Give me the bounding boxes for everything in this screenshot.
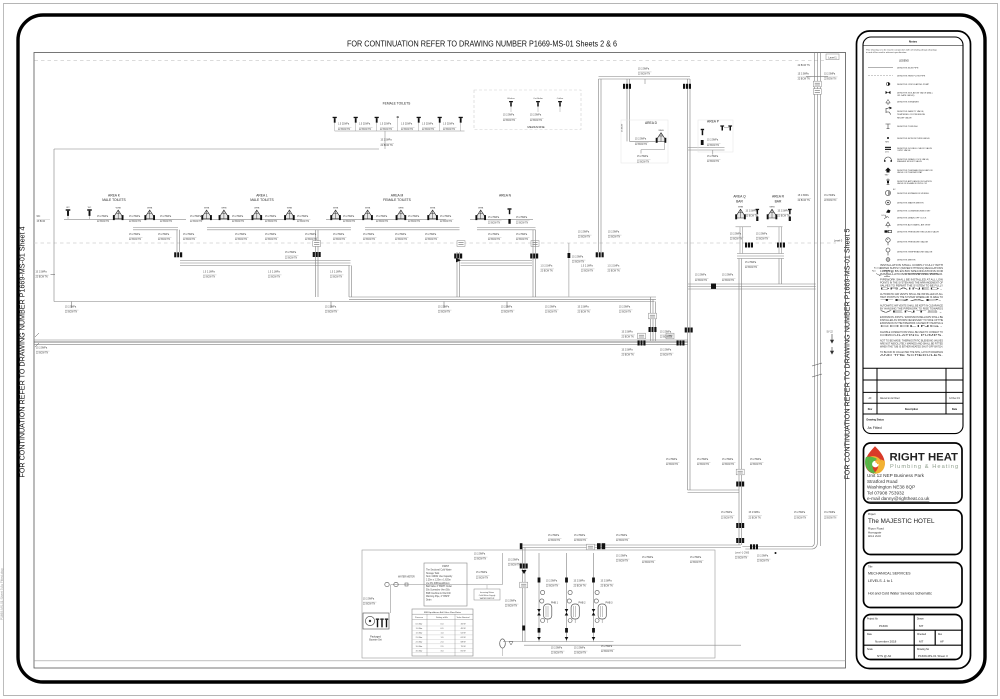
svg-text:DENOTES SAFETY VALVE,: DENOTES SAFETY VALVE,: [897, 110, 924, 113]
svg-text:22 BCW TN: 22 BCW TN: [343, 221, 356, 223]
svg-text:15 2.5MPa: 15 2.5MPa: [572, 257, 584, 259]
svg-text:15 2.5MPa: 15 2.5MPa: [474, 554, 486, 556]
bottom drain run: [503, 641, 614, 643]
svg-text:VALVE OR THERMOSTAT: VALVE OR THERMOSTAT: [897, 171, 923, 174]
svg-text:B38 Equilibrium Ball Valve Flo: B38 Equilibrium Ball Valve Flow Rates: [424, 611, 462, 614]
MEZZANINE dashed room: [474, 90, 581, 130]
svg-text:AREA D: AREA D: [645, 121, 658, 125]
svg-text:15 2.5MPa: 15 2.5MPa: [660, 331, 672, 333]
svg-text:VENTS.: VENTS.: [880, 311, 945, 314]
svg-text:22 BCW TN: 22 BCW TN: [443, 129, 456, 131]
packaged booster set tank: [363, 613, 389, 629]
area D feed pair: [626, 79, 628, 141]
svg-text:22 BCW TN: 22 BCW TN: [660, 337, 673, 339]
svg-text:15 2.5MPa: 15 2.5MPa: [746, 211, 758, 213]
svg-text:FOR CONTINUATION REFER TO DRAW: FOR CONTINUATION REFER TO DRAWING NUMBER…: [843, 229, 852, 480]
wire: cold feed loop left riser: [53, 149, 55, 302]
svg-text:15 2.5MPa: 15 2.5MPa: [660, 350, 672, 352]
crossing tick + labels top: [806, 75, 828, 77]
svg-text:PHB 3: PHB 3: [606, 601, 614, 604]
svg-text:22 BCW TN: 22 BCW TN: [635, 144, 648, 146]
svg-text:15 2.5MPa: 15 2.5MPa: [695, 275, 707, 277]
riser pair area N: [532, 230, 534, 297]
svg-text:MT: MT: [919, 624, 923, 628]
svg-text:VALVE IN FLAME NOZZLE OR: VALVE IN FLAME NOZZLE OR: [897, 182, 927, 185]
svg-text:22 BCW TN: 22 BCW TN: [129, 221, 142, 223]
svg-text:81 W: 81 W: [461, 650, 466, 652]
svg-text:22 BCW TN: 22 BCW TN: [265, 221, 278, 223]
svg-text:22 BCW TN: 22 BCW TN: [745, 267, 758, 269]
svg-text:22 BCW TN: 22 BCW TN: [363, 604, 376, 606]
svg-text:Level 0: Level 0: [834, 239, 843, 243]
svg-text:15 2.5MPa: 15 2.5MPa: [637, 156, 649, 158]
wire: pair A elbow to B: [688, 489, 740, 491]
svg-text:22 BCW TN: 22 BCW TN: [601, 651, 614, 653]
svg-text:22 BCW TN: 22 BCW TN: [401, 129, 414, 131]
vent arrows: [830, 334, 833, 343]
svg-text:22 BCW TN: 22 BCW TN: [530, 120, 543, 122]
svg-text:DENOTES BCW PIPE: DENOTES BCW PIPE: [897, 68, 919, 70]
svg-text:AREA R: AREA R: [772, 195, 785, 199]
wire: triple drop at x~650: [650, 297, 652, 341]
svg-text:DENOTES PRESSURE GAUGE: DENOTES PRESSURE GAUGE: [897, 241, 929, 244]
svg-text:15 2.5MPa: 15 2.5MPa: [722, 459, 734, 461]
svg-text:22 BCW TN: 22 BCW TN: [305, 239, 318, 241]
notes & legend box: [863, 37, 963, 434]
svg-text:22 BCW TN: 22 BCW TN: [359, 129, 372, 131]
svg-text:1.5 2.1MPa: 1.5 2.1MPa: [608, 265, 620, 267]
svg-text:22 BCW TN: 22 BCW TN: [338, 129, 351, 131]
svg-text:BAR: BAR: [736, 199, 743, 203]
svg-text:The MAJESTIC HOTEL: The MAJESTIC HOTEL: [868, 518, 935, 525]
svg-text:Project No: Project No: [867, 618, 878, 621]
svg-text:22 BCW TN: 22 BCW TN: [265, 239, 278, 241]
svg-text:22 BCW TN: 22 BCW TN: [158, 239, 171, 241]
svg-text:LEGEND: LEGEND: [899, 59, 909, 62]
svg-text:15 2.5MPa: 15 2.5MPa: [721, 512, 733, 514]
svg-text:P1669: P1669: [879, 624, 888, 628]
svg-text:3.5 Bar: 3.5 Bar: [416, 649, 423, 652]
svg-text:DENOTES AUTOMATIC AIR VENT: DENOTES AUTOMATIC AIR VENT: [897, 224, 931, 227]
svg-text:Drawing Status: Drawing Status: [867, 419, 885, 422]
svg-text:15 2.5MPa: 15 2.5MPa: [622, 350, 634, 352]
svg-text:AREA L: AREA L: [256, 193, 268, 197]
svg-text:15 2.5MPa: 15 2.5MPa: [707, 140, 719, 142]
svg-text:22 BCW TN: 22 BCW TN: [425, 239, 438, 241]
incoming main box: [474, 589, 500, 600]
svg-text:15 2.5MPa: 15 2.5MPa: [381, 140, 393, 142]
svg-text:22 BCW TN: 22 BCW TN: [778, 216, 791, 218]
svg-text:22 BCW TN: 22 BCW TN: [97, 221, 110, 223]
svg-text:The Sectional Cold Water: The Sectional Cold Water: [426, 568, 452, 571]
svg-text:15 2.5MPa: 15 2.5MPa: [325, 307, 337, 309]
area labels: [102, 193, 126, 202]
svg-text:22 BCW TN: 22 BCW TN: [798, 79, 811, 81]
bar riser pair down: [738, 259, 740, 285]
wire: riser pair B down to plant: [738, 284, 740, 545]
svg-text:22 BCW TN: 22 BCW TN: [690, 562, 703, 564]
svg-text:32 W: 32 W: [461, 624, 466, 626]
labels bottom of plant: [551, 648, 565, 655]
svg-text:75 W: 75 W: [461, 646, 466, 648]
svg-text:15 2.5MPa: 15 2.5MPa: [363, 599, 375, 601]
svg-text:Unit 12 NEP Business Park: Unit 12 NEP Business Park: [867, 473, 925, 478]
svg-text:22 BCW TN: 22 BCW TN: [268, 277, 281, 279]
svg-text:15 2.5MPa: 15 2.5MPa: [129, 216, 141, 218]
svg-text:3.0 Bar: 3.0 Bar: [416, 645, 423, 648]
svg-text:15 2.5MPa: 15 2.5MPa: [425, 234, 437, 236]
svg-text:Notes: Notes: [909, 40, 918, 44]
svg-text:22 BCW TN: 22 BCW TN: [608, 237, 621, 239]
svg-text:HG1 2HU: HG1 2HU: [868, 534, 881, 538]
svg-text:22 BCW TN: 22 BCW TN: [160, 221, 173, 223]
expansion vessel: [500, 639, 506, 648]
svg-text:22 BCW TN: 22 BCW TN: [637, 161, 650, 163]
svg-text:12 Dec 19: 12 Dec 19: [949, 398, 960, 400]
svg-text:22 BCW TN: 22 BCW TN: [505, 606, 518, 608]
svg-text:22 BCW TN: 22 BCW TN: [508, 565, 521, 567]
svg-text:15 2.5MPa: 15 2.5MPa: [505, 601, 517, 603]
svg-text:22 BCW TN: 22 BCW TN: [546, 586, 559, 588]
svg-text:15 2.5MPa: 15 2.5MPa: [333, 234, 345, 236]
svg-text:22 BCW TN: 22 BCW TN: [638, 74, 651, 76]
svg-text:Title: Title: [868, 566, 873, 569]
svg-text:P1669-MS-01 Sheet 3 As Fitted.: P1669-MS-01 Sheet 3 As Fitted.dwg: [0, 568, 4, 620]
riser pair from bridge left leg: [598, 79, 600, 252]
svg-text:RELIEF VALVE: RELIEF VALVE: [897, 116, 912, 119]
svg-text:15 2.5MPa: 15 2.5MPa: [608, 232, 620, 234]
svg-text:Drawing No: Drawing No: [917, 648, 930, 651]
riser pair L down: [315, 230, 317, 297]
svg-text:This Drawing is to be read in: This Drawing is to be read in conjunctio…: [866, 48, 938, 51]
svg-text:15 2.5MPa: 15 2.5MPa: [757, 556, 769, 558]
svg-text:FEMALE TOILETS: FEMALE TOILETS: [383, 198, 412, 202]
svg-text:TEMPERED OR PRESSURE: TEMPERED OR PRESSURE: [897, 114, 926, 116]
bar collect bundle: [737, 253, 784, 255]
wire: AREA P branch pair: [688, 147, 725, 149]
svg-text:Coffee: Coffee: [557, 98, 564, 100]
svg-text:Altered to As Fitted: Altered to As Fitted: [880, 397, 900, 400]
svg-text:DENOTES DRAIN OFF COCK: DENOTES DRAIN OFF COCK: [897, 217, 927, 220]
riser pair area K/L down: [176, 230, 178, 252]
revision table: [863, 368, 963, 414]
svg-text:1.5 Bar: 1.5 Bar: [416, 632, 423, 635]
svg-text:DOC: DOC: [882, 215, 887, 217]
svg-text:Plumbing & Heating: Plumbing & Heating: [890, 464, 959, 470]
svg-text:22 BCW TN: 22 BCW TN: [707, 145, 720, 147]
svg-text:22 BCW TN: 22 BCW TN: [376, 221, 389, 223]
svg-text:Washington NE38 8QP: Washington NE38 8QP: [867, 485, 915, 490]
svg-text:22 BCW TN: 22 BCW TN: [757, 561, 770, 563]
valve cluster: [623, 84, 631, 89]
svg-text:Setting m3/hr: Setting m3/hr: [436, 616, 448, 619]
svg-text:15 2.5MPa: 15 2.5MPa: [574, 581, 586, 583]
svg-text:CIRCULATING PUMPS.: CIRCULATING PUMPS.: [880, 334, 944, 337]
valve cluster: [454, 254, 462, 259]
svg-text:15 2.5MPa: 15 2.5MPa: [395, 234, 407, 236]
svg-text:DENOTES CIRCULATING PUMP: DENOTES CIRCULATING PUMP: [897, 83, 930, 86]
svg-text:15 2.5MPa: 15 2.5MPa: [65, 307, 77, 309]
svg-text:22 BCW TN: 22 BCW TN: [666, 464, 679, 466]
svg-text:22 BCW TN: 22 BCW TN: [545, 312, 558, 314]
svg-text:15 2.5MPa: 15 2.5MPa: [622, 331, 634, 333]
svg-text:15 2.5MPa: 15 2.5MPa: [638, 68, 650, 70]
svg-text:FEMALE TOILETS: FEMALE TOILETS: [383, 101, 412, 105]
sink fixture: [701, 129, 704, 135]
svg-text:68 W: 68 W: [461, 641, 466, 643]
svg-text:MECHANICAL SERVICES: MECHANICAL SERVICES: [868, 572, 911, 576]
basin WHB AREA D: [656, 130, 667, 143]
svg-text:22 BCW TN: 22 BCW TN: [488, 222, 501, 224]
AREA D room outline: [621, 120, 668, 163]
svg-text:WATER METER: WATER METER: [398, 576, 415, 579]
CWST notes box: [424, 563, 467, 606]
svg-text:22 BCW TN: 22 BCW TN: [730, 239, 743, 241]
svg-text:WC: WC: [37, 216, 41, 218]
pipe size labels below low run: [545, 306, 559, 313]
svg-text:AREA M: AREA M: [391, 193, 404, 197]
svg-text:WASHER MOUNT VALVE: WASHER MOUNT VALVE: [897, 160, 922, 163]
valve clusters on riser B: [736, 482, 744, 487]
svg-text:MALE TOILETS: MALE TOILETS: [250, 198, 274, 202]
svg-text:22 BCW TN: 22 BCW TN: [297, 221, 310, 223]
svg-text:15 2.5MPa: 15 2.5MPa: [666, 459, 678, 461]
svg-text:/ WRC VALVE: / WRC VALVE: [897, 149, 911, 152]
svg-text:15 2.5MPa: 15 2.5MPa: [530, 115, 542, 117]
svg-text:22 BCW TN: 22 BCW TN: [581, 271, 594, 273]
svg-text:15 2.5MPa: 15 2.5MPa: [476, 572, 488, 574]
svg-text:COOLING.: COOLING.: [880, 325, 945, 328]
WHB basins row: [113, 208, 124, 221]
svg-text:15 2.5MPa: 15 2.5MPa: [503, 115, 515, 117]
svg-text:Stratford Road: Stratford Road: [867, 479, 898, 484]
svg-text:15 2.5MPa: 15 2.5MPa: [516, 234, 528, 236]
valve cluster: [649, 327, 657, 332]
svg-text:1.5 21MPa: 1.5 21MPa: [443, 124, 455, 126]
svg-text:Cat Boiler: Cat Boiler: [533, 97, 543, 100]
svg-text:22 BCW TN: 22 BCW TN: [622, 337, 635, 339]
svg-text:15 2.5MPa: 15 2.5MPa: [635, 139, 647, 141]
svg-text:P1669-MS-01 Sheet 3: P1669-MS-01 Sheet 3: [918, 654, 948, 658]
svg-text:15 2.5MPa: 15 2.5MPa: [265, 234, 277, 236]
basin WHB AREA Q: [735, 207, 746, 220]
tap fixture Q: [756, 209, 760, 221]
svg-text:B38 Overflow & Vlts Drill: B38 Overflow & Vlts Drill: [426, 592, 451, 595]
wire: right service riser (3 lines): [813, 53, 815, 544]
svg-text:22 BCW TN: 22 BCW TN: [642, 562, 655, 564]
svg-text:DENOTES WATER METER: DENOTES WATER METER: [897, 202, 924, 205]
svg-text:22 BCW TN: 22 BCW TN: [380, 129, 393, 131]
wire: HWS bundle level 0 (3 lines): [688, 283, 816, 285]
svg-text:22 BCW TN: 22 BCW TN: [574, 540, 587, 542]
svg-text:DENOTES BCW RETURN VALVE: DENOTES BCW RETURN VALVE: [897, 137, 930, 140]
svg-text:15 2.5MPa: 15 2.5MPa: [546, 581, 558, 583]
svg-text:15 2.5MPa: 15 2.5MPa: [642, 557, 654, 559]
svg-text:22 BCW TN: 22 BCW TN: [129, 239, 142, 241]
svg-text:15 2.5MPa: 15 2.5MPa: [36, 348, 48, 350]
pump PHB 2: [565, 553, 580, 642]
svg-text:FOR CONTINUATION REFER TO DRAW: FOR CONTINUATION REFER TO DRAWING NUMBER…: [18, 227, 27, 478]
svg-text:15 2.5MPa: 15 2.5MPa: [690, 557, 702, 559]
svg-text:DRAINED.: DRAINED.: [880, 287, 945, 290]
svg-text:22 BCW TN: 22 BCW TN: [578, 237, 591, 239]
svg-text:DENOTES COMMISSIONING SET: DENOTES COMMISSIONING SET: [897, 211, 931, 213]
svg-text:15 2.5MPa: 15 2.5MPa: [722, 275, 734, 277]
svg-text:22 BCW TN: 22 BCW TN: [608, 271, 621, 273]
svg-text:15 2.5MPa: 15 2.5MPa: [508, 560, 520, 562]
svg-text:22 BCW TN: 22 BCW TN: [36, 277, 49, 279]
svg-text:15 2.5MPa: 15 2.5MPa: [750, 459, 762, 461]
svg-text:15 2.5MPa: 15 2.5MPa: [824, 512, 836, 514]
wire: secondary collect pair: [133, 227, 178, 229]
svg-text:1.5 21MPa: 1.5 21MPa: [359, 124, 371, 126]
continuation slashes at left border: [35, 333, 39, 337]
svg-text:AREA K: AREA K: [108, 193, 121, 197]
svg-text:22 BCW TN: 22 BCW TN: [36, 353, 49, 355]
svg-text:15 2.5MPa: 15 2.5MPa: [798, 195, 810, 197]
svg-text:22 BCW TN: 22 BCW TN: [440, 221, 453, 223]
svg-text:50s Screwdrvr Vent 50s: 50s Screwdrvr Vent 50s: [426, 589, 451, 592]
info grid box: [864, 615, 963, 660]
svg-text:22 BCW TN: 22 BCW TN: [619, 312, 632, 314]
drop to loop: [384, 131, 386, 149]
plant room outline: [362, 550, 715, 658]
wire: distribution bundle (3 lines) AREA K-L: [180, 260, 351, 262]
svg-text:22 BCW TN: 22 BCW TN: [474, 559, 487, 561]
svg-text:2.5 Bar: 2.5 Bar: [416, 640, 423, 643]
svg-text:15 BCW: 15 BCW: [37, 221, 46, 223]
project box: [864, 510, 963, 555]
svg-text:Storage Tank: Storage Tank: [426, 572, 440, 575]
svg-text:15 2.5MPa: 15 2.5MPa: [440, 216, 452, 218]
svg-text:Washer: Washer: [507, 97, 515, 100]
svg-text:22 BCW TN: 22 BCW TN: [408, 221, 421, 223]
svg-text:22 BCW TN: 22 BCW TN: [476, 577, 489, 579]
level 1 dashed floor line: [35, 60, 825, 62]
svg-text:15 2.5MPa: 15 2.5MPa: [297, 216, 309, 218]
svg-text:22 BCW TN: 22 BCW TN: [548, 540, 561, 542]
suction header pair: [522, 548, 524, 642]
svg-text:Warning Pipe, 2" BSPP: Warning Pipe, 2" BSPP: [426, 595, 450, 598]
svg-text:15 2.5MPa: 15 2.5MPa: [343, 216, 355, 218]
svg-text:BAR: BAR: [775, 199, 782, 203]
svg-text:22 BCW TN: 22 BCW TN: [616, 561, 629, 563]
svg-text:22 BCW TN: 22 BCW TN: [735, 558, 748, 560]
svg-text:AREA N: AREA N: [499, 193, 512, 197]
svg-text:22 BCW TN: 22 BCW TN: [285, 257, 298, 259]
svg-text:Booster Set: Booster Set: [369, 639, 382, 642]
svg-text:1.5 2.1MPa: 1.5 2.1MPa: [330, 271, 342, 273]
level 0 dashed floor line: [34, 242, 836, 244]
svg-text:Ball Valve 4" BSPP Outlet: Ball Valve 4" BSPP Outlet: [426, 585, 452, 588]
svg-text:15 2.5MPa: 15 2.5MPa: [438, 307, 450, 309]
svg-text:1.5 2.1MPa: 1.5 2.1MPa: [203, 271, 215, 273]
pipe size labels female toilets row: [338, 124, 352, 131]
valve clusters Q/R: [745, 243, 753, 248]
valve flow-rate table: [412, 609, 473, 656]
svg-text:22 BCW TN: 22 BCW TN: [824, 517, 837, 519]
svg-text:15 2.5MPa: 15 2.5MPa: [265, 216, 277, 218]
svg-text:15 2.5MPa: 15 2.5MPa: [516, 217, 528, 219]
paired taps: [720, 125, 732, 130]
inner bottom line: [34, 660, 846, 662]
svg-text:22 BCW TN: 22 BCW TN: [574, 653, 587, 655]
svg-text:Rev: Rev: [868, 408, 873, 411]
svg-text:22 BCW TN: 22 BCW TN: [516, 239, 529, 241]
svg-text:1.5 2.1MPa: 1.5 2.1MPa: [268, 271, 280, 273]
svg-text:DENOTES TEMPERATURE GAUGE: DENOTES TEMPERATURE GAUGE: [897, 251, 933, 254]
pipe size labels on distribution bundle: [203, 271, 217, 278]
svg-text:Description: Description: [905, 408, 919, 411]
svg-text:15 2.5MPa: 15 2.5MPa: [285, 252, 297, 254]
valve cluster: [313, 252, 321, 257]
svg-text:15 2.5MPa: 15 2.5MPa: [488, 217, 500, 219]
svg-text:DENOTES ISOLATION VALVE (BALL: DENOTES ISOLATION VALVE (BALL: [897, 92, 934, 95]
svg-text:TRAP.: TRAP.: [880, 299, 946, 302]
junction blocks on bundle: [638, 341, 646, 346]
basin WHB AREA R: [767, 207, 778, 220]
svg-text:Date: Date: [867, 633, 873, 636]
wire: roof bridge pair: [599, 76, 691, 78]
break marks: [812, 363, 822, 377]
svg-text:22 BCW TN: 22 BCW TN: [190, 221, 203, 223]
svg-text:22 BCW TN: 22 BCW TN: [722, 464, 735, 466]
labels top of plant: [474, 554, 488, 561]
svg-text:15 2.5MPa: 15 2.5MPa: [578, 306, 590, 308]
svg-text:MALE TOILETS: MALE TOILETS: [102, 198, 126, 202]
tank to CWST feed line w/ meters: [391, 584, 503, 586]
svg-text:DENOTES EXPANSION VESSEL: DENOTES EXPANSION VESSEL: [897, 192, 930, 195]
mid single riser w/ valve: [568, 243, 570, 297]
svg-text:22 BCW TN: 22 BCW TN: [578, 312, 591, 314]
wire: cold feed loop bottom run: [54, 301, 655, 303]
svg-text:OR GATE VALVE): OR GATE VALVE): [897, 94, 915, 97]
svg-text:15 2.5MPa: 15 2.5MPa: [232, 216, 244, 218]
svg-text:1.0 Bar: 1.0 Bar: [416, 627, 423, 630]
svg-text:22 BCW TN: 22 BCW TN: [541, 271, 554, 273]
svg-text:Tel 07908 753932: Tel 07908 753932: [867, 490, 905, 495]
junction block: [520, 543, 605, 549]
svg-text:MEZZANINE: MEZZANINE: [527, 125, 544, 129]
svg-text:15 2.5MPa: 15 2.5MPa: [488, 234, 500, 236]
svg-text:22 BCW TN: 22 BCW TN: [756, 239, 769, 241]
svg-text:AF: AF: [940, 639, 944, 643]
svg-text:22 BCW TN: 22 BCW TN: [722, 280, 735, 282]
svg-text:CWST: CWST: [442, 565, 450, 568]
svg-text:1.5 21MPa: 1.5 21MPa: [422, 124, 434, 126]
svg-text:DENOTES STRAINER: DENOTES STRAINER: [897, 101, 919, 104]
svg-text:22 BCW TN: 22 BCW TN: [395, 239, 408, 241]
svg-text:PHB 1: PHB 1: [551, 601, 559, 604]
svg-text:DENOTES TUNDISH: DENOTES TUNDISH: [897, 126, 918, 128]
svg-text:2.25m x 1.25m x 1.625m: 2.25m x 1.25m x 1.625m: [426, 579, 451, 581]
wire: plant room top bundle: [523, 544, 742, 546]
svg-text:PHB 2: PHB 2: [579, 601, 587, 604]
svg-text:22 BCW TN: 22 BCW TN: [798, 200, 811, 202]
svg-text:15 2.5MPa: 15 2.5MPa: [616, 535, 628, 537]
svg-text:in and all be read to relevant: in and all be read to relevant specifica…: [866, 51, 907, 54]
drop ticks on loop bottom run with labels: [71, 302, 73, 309]
svg-text:Level 1: Level 1: [828, 55, 837, 59]
svg-text:15 2.5MPa: 15 2.5MPa: [824, 195, 836, 197]
svg-text:22 BCW TN: 22 BCW TN: [695, 280, 708, 282]
svg-text:22 BCW TN: 22 BCW TN: [325, 312, 338, 314]
logo box: [864, 443, 963, 503]
svg-text:22 BCW TN: 22 BCW TN: [601, 586, 614, 588]
svg-text:15 2.5MPa: 15 2.5MPa: [376, 216, 388, 218]
svg-text:15 2.5MPa: 15 2.5MPa: [707, 156, 719, 158]
svg-text:22 BCW TN: 22 BCW TN: [707, 161, 720, 163]
